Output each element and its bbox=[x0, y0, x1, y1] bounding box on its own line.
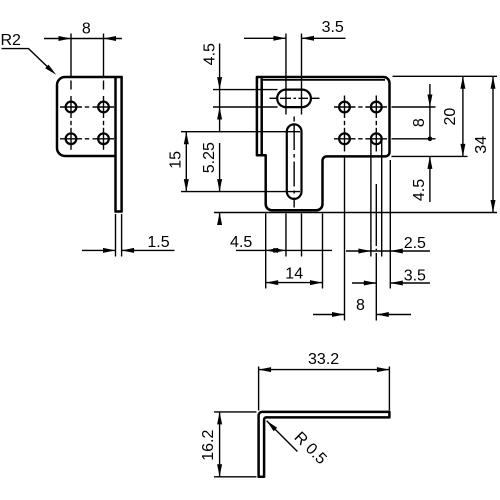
lower-right hole slot sides / extension lines bbox=[370, 140, 372, 257]
svg-text:8: 8 bbox=[411, 118, 428, 127]
dim 2.5 bbox=[389, 160, 391, 289]
top flange bend line bbox=[262, 79, 385, 81]
svg-text:20: 20 bbox=[442, 108, 459, 126]
dim 20 bbox=[462, 76, 464, 156]
dim 4.5 bottom-left bbox=[265, 214, 267, 289]
svg-text:5.25: 5.25 bbox=[201, 142, 218, 173]
svg-text:4.5: 4.5 bbox=[230, 234, 252, 251]
dim 16.2 bbox=[214, 411, 257, 413]
dim 3.5 right bbox=[352, 282, 376, 284]
4 holes (front view) bbox=[339, 102, 350, 113]
dim 4.5 left-top (slot height) bbox=[213, 89, 278, 91]
svg-text:4.5: 4.5 bbox=[411, 179, 428, 201]
bottom extension line bbox=[214, 212, 497, 214]
svg-text:1.5: 1.5 bbox=[147, 234, 169, 251]
dim 1.5 (bottom, left view) bbox=[115, 214, 117, 257]
svg-text:4.5: 4.5 bbox=[201, 43, 218, 65]
svg-text:2.5: 2.5 bbox=[404, 235, 426, 252]
svg-text:8: 8 bbox=[356, 297, 365, 314]
dim 15 (slot centres) bbox=[181, 131, 300, 133]
horizontal slot bbox=[277, 90, 311, 108]
hole centre cross lines bbox=[70, 34, 72, 78]
svg-text:3.5: 3.5 bbox=[322, 19, 344, 36]
dim 8 right bbox=[429, 84, 431, 139]
side flange bend line (left) bbox=[260, 78, 263, 155]
front outline bbox=[257, 77, 390, 210]
R 0.5 label + leader bbox=[267, 421, 298, 452]
svg-text:R2: R2 bbox=[1, 32, 22, 49]
dim 33.2 bbox=[258, 367, 260, 411]
front plate bottom end bbox=[114, 210, 122, 213]
svg-text:8: 8 bbox=[82, 21, 91, 38]
svg-text:3.5: 3.5 bbox=[404, 268, 426, 285]
front plate edge-on inner line bbox=[114, 77, 117, 212]
dim 4.5 right bbox=[429, 156, 431, 202]
dim 14 bbox=[322, 214, 324, 289]
slot centre lines bbox=[270, 97, 278, 99]
svg-text:34: 34 bbox=[473, 136, 490, 154]
svg-text:14: 14 bbox=[285, 265, 303, 282]
vertical slot bbox=[287, 124, 302, 199]
dim 8 bottom bbox=[344, 158, 346, 321]
hole centre cross lines (front view) bbox=[344, 96, 346, 119]
4 mounting holes (side view) bbox=[66, 102, 77, 113]
right dimension chain extension lines bbox=[393, 75, 498, 77]
dim 34 bbox=[492, 76, 494, 212]
front plate edge-on outer line bbox=[120, 77, 123, 212]
svg-text:33.2: 33.2 bbox=[308, 351, 339, 368]
svg-text:16.2: 16.2 bbox=[200, 430, 217, 461]
dim 5.25 bbox=[219, 143, 221, 192]
svg-text:15: 15 bbox=[168, 151, 185, 169]
dim 3.5 top bbox=[285, 34, 287, 115]
side plate outline bbox=[57, 77, 123, 156]
dim 8 (top, left view) bbox=[44, 38, 122, 40]
